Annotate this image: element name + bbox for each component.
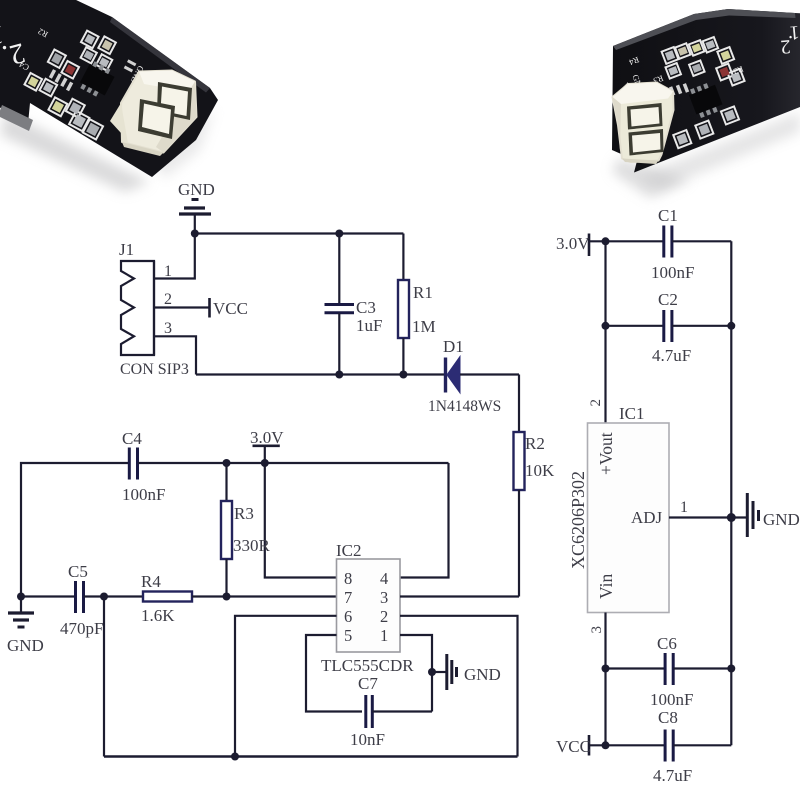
- wire: ADJ pin 1 to GND: [669, 516, 746, 518]
- svg-text:J1: J1: [119, 240, 134, 259]
- node: ADJ/GND junction: [727, 513, 736, 522]
- svg-text:3: 3: [164, 320, 172, 337]
- svg-text:2: 2: [588, 399, 604, 407]
- node: C6 left junction: [602, 665, 610, 673]
- photo: connector wedge foot: [110, 103, 128, 144]
- svg-text:4.7uF: 4.7uF: [653, 766, 692, 785]
- photo: connector bottom face shade: [122, 142, 164, 156]
- svg-text:Vin: Vin: [596, 574, 616, 599]
- svg-text:4.7uF: 4.7uF: [652, 346, 691, 365]
- svg-text:10nF: 10nF: [350, 730, 385, 749]
- photo: right connector top face: [613, 83, 674, 105]
- svg-text:100nF: 100nF: [650, 690, 693, 709]
- svg-text:TLC555CDR: TLC555CDR: [321, 656, 414, 675]
- wire: junction down to bottom rail: [103, 597, 105, 757]
- diode D1 (1N4148WS): [446, 357, 520, 394]
- wire: J1 pin 3 down to bottom rail: [154, 336, 196, 374]
- photo: pad dashes: [47, 30, 136, 113]
- svg-text:VCC: VCC: [556, 737, 591, 756]
- svg-text:3.0V: 3.0V: [250, 428, 284, 447]
- photo: right module PCB board: [612, 9, 800, 173]
- photo: right board top gray edge: [613, 9, 796, 50]
- svg-text:GND: GND: [464, 665, 501, 684]
- photo: connector right face shade: [156, 82, 197, 153]
- svg-text:C2: C2: [658, 290, 678, 309]
- node: pin6 bottom junction: [231, 753, 239, 761]
- wire: IC2 pin1 down: [400, 635, 432, 712]
- photo: tiny silk labels: [17, 15, 168, 133]
- photo: right connector slot lower: [629, 129, 664, 156]
- node: C2 right junction: [727, 322, 735, 330]
- node: GND/pin1 junction: [191, 230, 199, 238]
- wire: J1 pin 2 to VCC: [154, 306, 210, 308]
- photo: left board components (board frame): [4, 7, 171, 156]
- ground (beside IC2): [432, 654, 457, 690]
- wire: J1 pin 1: [154, 234, 195, 279]
- photo: connector slot upper: [157, 82, 192, 120]
- ground (top, above J1): [179, 200, 211, 234]
- node: R3 top junction: [223, 459, 231, 467]
- svg-text:XC6206P302: XC6206P302: [568, 471, 588, 569]
- svg-text:C6: C6: [657, 634, 677, 653]
- svg-text:5: 5: [344, 626, 352, 645]
- node: C6 right junction: [727, 665, 735, 673]
- photo: connector slot lower: [138, 99, 175, 139]
- svg-text:2: 2: [164, 291, 172, 308]
- photo: right connector left shade: [613, 97, 622, 150]
- svg-text:1: 1: [680, 499, 688, 516]
- wire: C2 row: [606, 325, 664, 327]
- node: R3 bottom / pin7 junction: [223, 593, 231, 601]
- svg-text:10K: 10K: [525, 461, 555, 480]
- wire: top rail from GND to R1: [195, 232, 404, 234]
- resistor R3: [221, 463, 232, 597]
- node: 3.0V junction: [261, 459, 269, 467]
- svg-text:C5: C5: [68, 562, 88, 581]
- svg-text:IC1: IC1: [619, 404, 645, 423]
- wire: IC2 pin6 left and down: [235, 616, 337, 757]
- svg-text:+Vout: +Vout: [596, 432, 616, 475]
- photo: left module PCB board: [0, 0, 218, 177]
- wire: right vertical rail: [730, 241, 732, 745]
- svg-text:1.6K: 1.6K: [141, 606, 175, 625]
- node: VCC/Vin junction: [602, 741, 610, 749]
- svg-text:100nF: 100nF: [122, 485, 165, 504]
- svg-text:VCC: VCC: [213, 299, 248, 318]
- svg-text:C7: C7: [358, 674, 378, 693]
- capacitor C1: [664, 226, 732, 258]
- svg-text:4: 4: [380, 569, 388, 588]
- resistor R4: [143, 592, 337, 602]
- svg-text:1uF: 1uF: [356, 316, 382, 335]
- svg-text:470pF: 470pF: [60, 619, 103, 638]
- svg-text:C8: C8: [658, 708, 678, 727]
- node: C2 left junction: [602, 322, 610, 330]
- svg-text:6: 6: [344, 607, 352, 626]
- svg-text:R1: R1: [413, 283, 433, 302]
- wire: rail to IC2 pin8: [265, 463, 337, 578]
- svg-text:C1: C1: [658, 206, 678, 225]
- capacitor C8: [665, 730, 731, 762]
- photo: right board components (board frame): [613, 21, 762, 159]
- svg-text:C3: C3: [356, 298, 376, 317]
- photo: right tiny labels: [613, 21, 745, 116]
- svg-text:7: 7: [344, 588, 352, 607]
- svg-text:1N4148WS: 1N4148WS: [428, 398, 501, 415]
- svg-text:C4: C4: [122, 429, 142, 448]
- wire: VCC row: [589, 744, 664, 746]
- capacitor C3: [325, 234, 355, 375]
- resistor R2: [514, 432, 525, 597]
- wire: IC2 pin3 to R2: [400, 595, 519, 597]
- photo: right silk version text: [780, 21, 800, 58]
- power 3.0V terminal: [253, 446, 280, 463]
- capacitor C5: [21, 581, 143, 613]
- photo: right module shadow: [612, 158, 690, 198]
- svg-text:IC2: IC2: [336, 541, 362, 560]
- svg-text:D1: D1: [443, 337, 464, 356]
- capacitor C2: [664, 310, 732, 342]
- svg-text:2: 2: [780, 35, 792, 58]
- wire: 3.0V rail down right side to IC2 pin4: [400, 463, 449, 578]
- connector J1 body: [121, 261, 154, 355]
- ground (left, at C5): [8, 597, 34, 628]
- node: Vout rail junction: [602, 237, 610, 245]
- svg-text:3.0V: 3.0V: [556, 234, 590, 253]
- svg-text:R4: R4: [141, 572, 161, 591]
- wire: IC2 pin5 down: [306, 635, 362, 712]
- wire: bottom rail pin3 to D1: [196, 373, 445, 375]
- svg-text:ADJ: ADJ: [631, 508, 663, 527]
- node: R1 bottom junction: [399, 371, 407, 379]
- svg-text:1M: 1M: [412, 317, 436, 336]
- resistor R1: [398, 234, 409, 375]
- photo: left silk version text: [0, 19, 28, 72]
- svg-text:2: 2: [380, 607, 388, 626]
- ground (right of IC1): [747, 493, 758, 537]
- node: pin1/GND junction: [428, 668, 436, 676]
- node: C3 top junction: [335, 230, 343, 238]
- photo: right connector body: [613, 83, 674, 163]
- svg-text:R3: R3: [234, 504, 254, 523]
- photo: right connector slot upper: [627, 103, 663, 130]
- svg-text:CON SIP3: CON SIP3: [120, 361, 189, 378]
- photo: pad dashes right: [655, 79, 689, 102]
- photo: IC chip: [80, 64, 115, 96]
- wire: Vout pin 2 vertical: [604, 241, 606, 423]
- photo: left connector body: [121, 71, 197, 153]
- capacitor C7: [366, 695, 432, 728]
- svg-text:1: 1: [164, 263, 172, 280]
- svg-text:R2: R2: [525, 434, 545, 453]
- node: left rail / C5 junction: [17, 593, 25, 601]
- IC2 box (TLC555CDR): [337, 559, 401, 652]
- svg-text:1: 1: [380, 626, 388, 645]
- svg-text:100nF: 100nF: [651, 263, 694, 282]
- photo: left module shadow: [0, 112, 150, 192]
- wire: 3.0V rail to C1: [589, 240, 663, 242]
- capacitor C6: [665, 653, 731, 685]
- svg-text:GND: GND: [178, 180, 215, 199]
- photo: left board top edge highlight: [110, 17, 210, 93]
- IC1 box (XC6206P302): [588, 423, 670, 613]
- photo: IC chip right: [689, 85, 723, 115]
- photo: connector top face: [139, 71, 195, 93]
- wire: bottom rail: [104, 755, 518, 758]
- wire: Vin pin 3 vertical: [604, 613, 606, 746]
- wire: D1 cathode side down to R2: [518, 375, 520, 433]
- svg-text:3: 3: [380, 588, 388, 607]
- svg-text:8: 8: [344, 569, 352, 588]
- svg-text:GND: GND: [763, 510, 800, 529]
- photo: right connector bottom shade: [622, 159, 659, 165]
- node: C5/R4 junction: [100, 593, 108, 601]
- svg-text:GND: GND: [7, 636, 44, 655]
- wire: left loop (C4 rail): [21, 463, 128, 597]
- svg-text:330R: 330R: [233, 536, 271, 555]
- svg-text:3: 3: [589, 626, 605, 634]
- wire: C6 row: [606, 667, 665, 669]
- wire: IC2 pin2 right and down: [400, 616, 518, 757]
- VCC terminal bar: [208, 298, 211, 318]
- capacitor C4: [129, 448, 448, 480]
- photo: left board side gray edge: [0, 105, 33, 131]
- node: C3 bottom junction: [335, 371, 343, 379]
- power 3.0V terminal (right): [588, 234, 591, 257]
- VCC terminal (bottom right): [588, 735, 591, 756]
